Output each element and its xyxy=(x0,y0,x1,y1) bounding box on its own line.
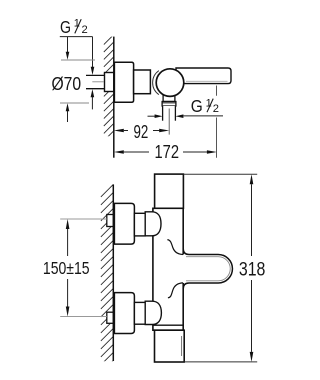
extension line at lever end (top view) xyxy=(216,86,218,96)
connecting cylinder (top view) xyxy=(134,70,151,94)
svg-text:G: G xyxy=(60,17,71,37)
svg-text:Ø70: Ø70 xyxy=(52,73,82,94)
dia70 bottom extension line xyxy=(60,102,89,104)
upper supply stub (front view) xyxy=(107,215,114,227)
upper union connector (front view) xyxy=(134,213,145,236)
svg-text:150±15: 150±15 xyxy=(43,258,90,278)
thermostat body top cap (front view) xyxy=(155,174,184,208)
G1/2 pointer to pipe top (top view) xyxy=(91,37,95,75)
svg-text:G: G xyxy=(191,96,203,116)
lower supply stub (front view) xyxy=(107,312,114,323)
lower escutcheon (front view) xyxy=(114,293,134,334)
upper escutcheon (front view) xyxy=(114,203,134,244)
handle bottom fillet (front view) xyxy=(168,283,183,298)
upper union dome nut (front view) xyxy=(145,212,161,236)
dia70 top arrow xyxy=(66,37,70,60)
bottom section inner shading line xyxy=(181,336,183,356)
lever handle (top view) xyxy=(176,68,231,84)
wall face line (front view) xyxy=(112,184,114,361)
pipe centerline dash (top view) xyxy=(92,81,104,83)
svg-text:2: 2 xyxy=(82,24,88,36)
dim 172 (top view) xyxy=(114,142,217,162)
outlet tube G1/2 (top view) xyxy=(163,106,176,121)
body circle back flange arc (top view) xyxy=(153,71,159,95)
G1/2 pointer to pipe bottom (top view) xyxy=(91,89,95,109)
lower union connector (front view) xyxy=(134,302,145,324)
svg-text:2: 2 xyxy=(213,103,219,115)
body seam line (front view) xyxy=(153,324,183,326)
G1/2 label (outlet, top view) xyxy=(191,96,219,116)
mixer body circle (top view) xyxy=(156,69,184,97)
svg-text:172: 172 xyxy=(155,142,180,162)
handle (front view) xyxy=(181,255,232,284)
supply pipe through wall (top view) xyxy=(86,75,114,88)
dim 318 (front view) xyxy=(239,174,266,362)
wall hatching (top view) xyxy=(104,35,114,141)
dia70 bottom arrow xyxy=(66,103,70,122)
318 top extension line (front view) xyxy=(184,173,258,175)
dim 150+-15 (front view) xyxy=(43,219,90,317)
wall face line (top view) xyxy=(113,37,115,158)
outlet nut (top view) xyxy=(162,102,176,107)
handle top fillet (front view) xyxy=(167,240,183,255)
outlet tube centerline (top view) xyxy=(168,109,170,135)
dia70 top extension line xyxy=(61,59,95,61)
svg-text:318: 318 xyxy=(239,259,266,280)
pipe nut inside wall (top view) xyxy=(105,73,114,92)
lower centerline (front view) xyxy=(60,316,107,318)
lower union dome nut (front view) xyxy=(145,301,161,324)
upper centerline (front view) xyxy=(60,218,107,220)
318 bottom extension line (front view) xyxy=(184,361,257,363)
wall escutcheon (top view) xyxy=(114,62,133,102)
svg-text:92: 92 xyxy=(134,122,149,142)
wall hatching (front view) xyxy=(101,184,114,373)
body bottom section (front view) xyxy=(155,330,185,362)
G1/2 label (top left) xyxy=(60,17,93,37)
thermostat body column (front view) xyxy=(153,208,183,330)
outlet neck (top view) xyxy=(163,94,175,102)
dim 92 (top view) xyxy=(114,122,169,142)
handle inner shading xyxy=(186,257,230,281)
G1/2 outlet arrows (top view) xyxy=(148,114,224,118)
